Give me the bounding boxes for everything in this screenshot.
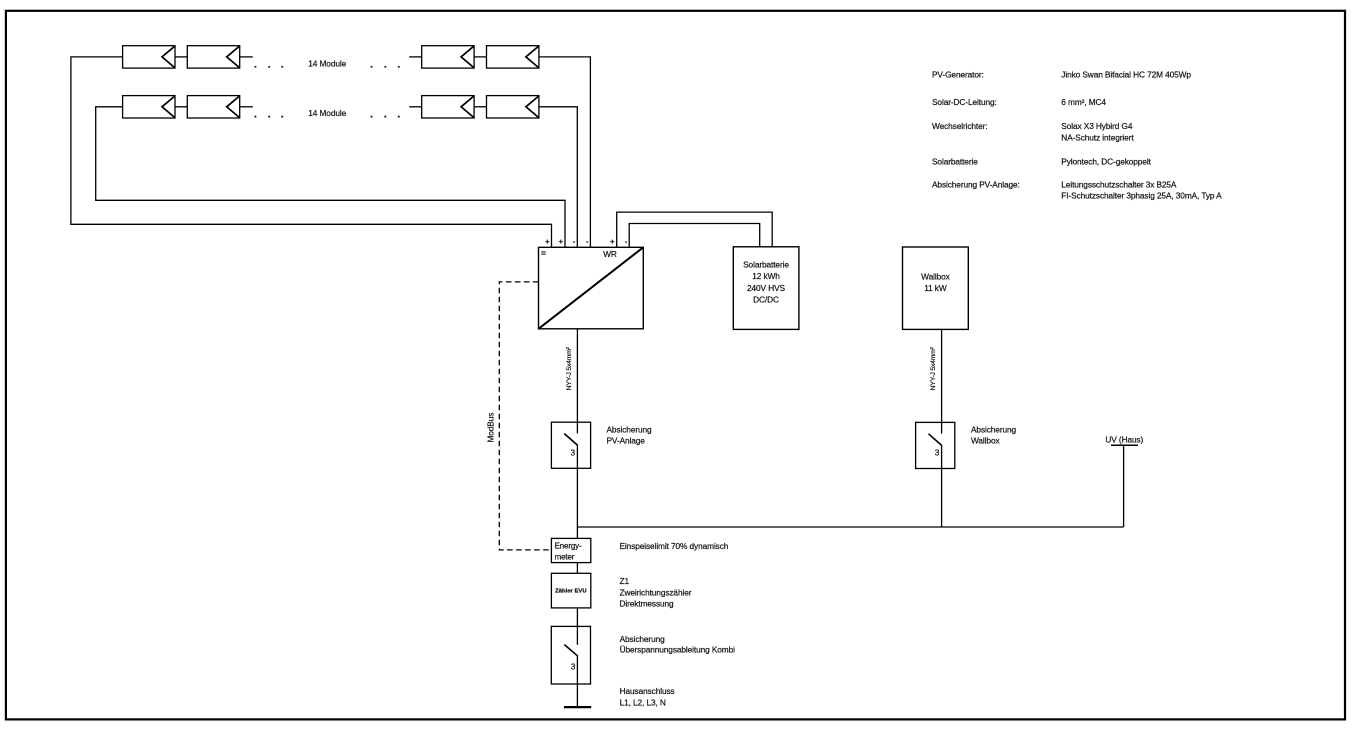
wire: Zaehler EVU to Q3 (576, 608, 578, 627)
svg-text:=: = (541, 248, 546, 258)
breaker Q1 (Absicherung PV-Anlage) (551, 422, 590, 468)
breaker Q3 (Absicherung Ueberspannungsableitung) box (551, 626, 590, 684)
label: Wallbox 11 kW (921, 271, 950, 293)
wire: WR AC output down to PV breaker (576, 329, 578, 422)
svg-text:Wallbox: Wallbox (971, 435, 1000, 445)
PV module string 2 module 2 (187, 96, 239, 118)
svg-text:meter: meter (555, 552, 575, 561)
svg-text:+: + (545, 237, 550, 246)
inverter diagonal (539, 247, 644, 328)
svg-text:DC/DC: DC/DC (753, 295, 779, 305)
wire: string 1 negative (right) down to WR terminal - (539, 57, 591, 247)
ellipsis string 1 right (370, 66, 400, 68)
wire: Q1 to Energymeter / AC bus (576, 468, 578, 538)
PV module string 1 module 2 (187, 46, 239, 68)
svg-text:Absicherung PV-Anlage:: Absicherung PV-Anlage: (932, 180, 1020, 190)
PV module string 2 module 13 (422, 96, 474, 118)
svg-text:WR: WR (603, 249, 617, 259)
svg-text:14 Module: 14 Module (308, 108, 346, 118)
label: Z1 Zweirichtungszaehler Direktmessung (620, 576, 692, 609)
svg-text:Leitungsschutzschalter 3x B25A: Leitungsschutzschalter 3x B25A (1061, 180, 1177, 190)
svg-text:Zweirichtungszähler: Zweirichtungszähler (620, 587, 692, 597)
svg-text:Hausanschluss: Hausanschluss (620, 686, 675, 696)
inverter U1 (WR) box (539, 247, 644, 328)
svg-text:FI-Schutzschalter 3phasig 25A,: FI-Schutzschalter 3phasig 25A, 30mA, Typ… (1061, 190, 1222, 200)
wire: Q2 down to AC bus (941, 469, 943, 528)
svg-text:3: 3 (935, 448, 940, 458)
svg-text:PV-Generator:: PV-Generator: (932, 70, 984, 80)
ellipsis string 2 right (370, 116, 400, 118)
svg-text:Solax X3 Hybird G4: Solax X3 Hybird G4 (1061, 121, 1133, 131)
ellipsis string 2 left (254, 116, 283, 118)
svg-text:+: + (559, 237, 564, 246)
svg-text:Solarbatterie: Solarbatterie (743, 260, 789, 270)
svg-text:Absicherung: Absicherung (620, 634, 666, 644)
ground / house connection bar (564, 706, 591, 708)
wire: string 2 module 13 to module 14 (474, 106, 486, 108)
svg-text:11 kW: 11 kW (924, 283, 947, 293)
svg-text:ModBus: ModBus (485, 413, 495, 443)
breaker Q2 (Absicherung Wallbox) (916, 422, 955, 468)
svg-text:3: 3 (571, 662, 576, 672)
svg-text:6 mm², MC4: 6 mm², MC4 (1061, 97, 1106, 107)
wire: string 1 positive (left) to WR terminal + (71, 57, 552, 247)
PV module string 1 module 14 (487, 46, 539, 68)
svg-text:L1, L2, L3, N: L1, L2, L3, N (620, 697, 666, 707)
svg-text:240V HVS: 240V HVS (747, 283, 786, 293)
wire: Q3 to house connection (576, 656, 578, 707)
spec table: values column (1061, 70, 1222, 201)
wire: string 2 module 1 to module 2 (175, 106, 187, 108)
svg-text:PV-Anlage: PV-Anlage (607, 435, 646, 445)
svg-text:Jinko Swan Bifacial HC 72M 405: Jinko Swan Bifacial HC 72M 405Wp (1061, 70, 1191, 80)
svg-text:12 kWh: 12 kWh (752, 271, 780, 281)
label: Absicherung Ueberspannungsableitung Kombi (620, 634, 736, 655)
wire: ModBus dashed link WR to Energymeter (499, 282, 551, 550)
label: Hausanschluss L1, L2, L3, N (620, 686, 675, 707)
wire: Wallbox down to Q2 (941, 329, 943, 422)
UV (Haus) terminal bar (1111, 444, 1138, 446)
svg-text:Wallbox: Wallbox (921, 271, 950, 281)
svg-text:Absicherung: Absicherung (971, 424, 1017, 434)
label: Energy- meter (555, 542, 582, 562)
ellipsis string 1 left (254, 66, 283, 68)
wire: string 1 module 2 stub right (240, 56, 253, 58)
svg-text:Überspannungsableitung Kombi: Überspannungsableitung Kombi (620, 645, 736, 655)
label: Absicherung Wallbox (971, 424, 1017, 445)
svg-text:+: + (610, 237, 615, 246)
wire: string 2 negative (right) down to WR terminal - (539, 107, 577, 248)
wire: Energymeter to Zaehler EVU (576, 563, 578, 574)
PV module string 2 module 1 (123, 96, 175, 118)
svg-text:NA-Schutz integriert: NA-Schutz integriert (1061, 132, 1134, 142)
wallbox W1 box (903, 247, 969, 329)
label: Absicherung PV-Anlage (607, 424, 653, 445)
svg-text:UV (Haus): UV (Haus) (1105, 434, 1143, 444)
svg-text:Wechselrichter:: Wechselrichter: (932, 121, 988, 131)
wire: Q3 entry stub (576, 626, 578, 644)
svg-text:3: 3 (571, 447, 576, 457)
wire: string 2 stub into module 13 (409, 106, 422, 108)
energy meter M1 (Energymeter) box (551, 538, 590, 562)
svg-text:Absicherung: Absicherung (607, 424, 653, 434)
wire: battery negative WR to Solarbatterie (629, 224, 760, 248)
svg-text:Pylontech, DC-gekoppelt: Pylontech, DC-gekoppelt (1061, 156, 1151, 166)
PV module string 1 module 1 (123, 46, 175, 68)
wire: string 1 module 1 to module 2 (175, 56, 187, 58)
svg-text:Z1: Z1 (620, 576, 630, 586)
PV module string 2 module 14 (487, 96, 539, 118)
meter M2 (Zaehler EVU) box (551, 573, 590, 608)
svg-text:Direktmessung: Direktmessung (620, 599, 675, 609)
wire: UV (Haus) down to AC bus (1123, 445, 1125, 527)
PV module string 1 module 13 (422, 46, 474, 68)
wire: string 2 positive (left) to WR terminal + (96, 107, 565, 248)
svg-text:14 Module: 14 Module (308, 58, 346, 68)
svg-text:Einspeiselimit 70% dynamisch: Einspeiselimit 70% dynamisch (620, 541, 729, 551)
wire: battery positive WR to Solarbatterie (617, 212, 773, 247)
svg-text:NYY-J 5x4mm²: NYY-J 5x4mm² (930, 346, 937, 390)
wire: string 1 stub into module 13 (409, 56, 422, 58)
svg-text:Energy-: Energy- (555, 542, 582, 551)
wire: string 2 module 2 stub right (240, 106, 253, 108)
svg-text:NYY-J 5x4mm²: NYY-J 5x4mm² (566, 346, 573, 390)
battery B1 (Solarbatterie) box (733, 247, 799, 330)
spec table: labels column (932, 70, 1020, 190)
wire: AC bus to wallbox branch and UV (Haus) (577, 526, 1123, 528)
svg-text:Solar-DC-Leitung:: Solar-DC-Leitung: (932, 97, 997, 107)
switch blade Q3 (564, 645, 578, 657)
label: Solarbatterie 12 kWh 240V HVS DC/DC (743, 260, 789, 305)
svg-text:Zähler EVU: Zähler EVU (555, 589, 586, 595)
svg-text:Solarbatterie: Solarbatterie (932, 156, 978, 166)
wire: string 1 module 13 to module 14 (474, 56, 486, 58)
